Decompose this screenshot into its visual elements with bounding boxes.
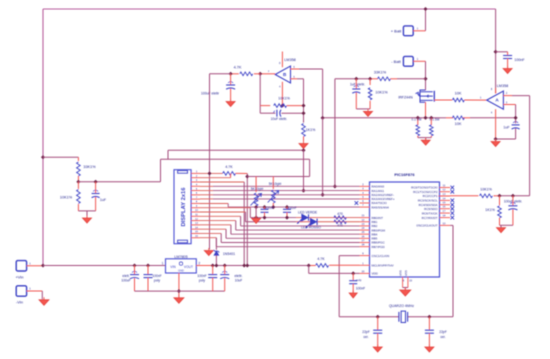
capacitor 1uF elettr (divider filter) <box>355 79 357 89</box>
junction - left divider node <box>76 180 80 184</box>
wire - divider filter bottom rail <box>356 108 370 110</box>
wire - display pin3 row to riser x244 <box>200 181 244 183</box>
wire - horizontal link row y159 <box>161 158 310 160</box>
svg-text:1: 1 <box>162 261 164 265</box>
junction - GND pin / cap bottom rail <box>177 289 181 293</box>
svg-text:1uF: 1uF <box>100 198 107 202</box>
ground - 100nF top right <box>507 66 509 69</box>
capacitor 100uF elettr (op-amp B output RC) <box>230 74 232 85</box>
svg-text:RC5/SDO: RC5/SDO <box>424 207 438 211</box>
junction - MCLR branch to VDD <box>307 263 311 267</box>
wire - display pin15 to PIC RB6 <box>200 232 221 234</box>
junction - cap branch <box>94 180 98 184</box>
resistor 10K (op-amp A + input) <box>452 116 464 120</box>
junction - column / RA0 row <box>333 184 337 188</box>
svg-text:1K1%: 1K1% <box>306 128 316 132</box>
wire - op-amp B output stub to 4.7K node <box>260 73 275 75</box>
capacitor 10uF elettr (op-amp B feedback) <box>260 112 275 114</box>
wire - 10K to op-amp A output <box>464 99 486 101</box>
wire - display pin5 row straight to PIC RA1 <box>200 190 213 192</box>
PIC left pin stubs and names <box>360 185 370 187</box>
wire - op-amp B V- stub down to feedback row <box>281 82 283 106</box>
junction - cap1 bottom / rail <box>262 216 266 220</box>
svg-text:10K: 10K <box>455 122 462 126</box>
wire - +5V down-over to VDD pin <box>308 266 310 274</box>
wire - divider node to RA tap and cap <box>78 181 160 183</box>
wire - output node down the feedback column <box>259 74 261 113</box>
wire - +Batt pin stub to top rail vertical <box>413 30 425 32</box>
wire - -Vin stub to ground <box>27 290 43 292</box>
wire - 1uF bottom to V- rail <box>496 138 516 140</box>
ground - PIC VSS <box>404 288 406 291</box>
svg-text:1N5401: 1N5401 <box>223 252 235 256</box>
svg-text:OSC2/CLKOUT: OSC2/CLKOUT <box>416 224 437 228</box>
wire - display pin8 row steps down to RA5 row <box>200 203 228 205</box>
svg-text:4.7K: 4.7K <box>317 257 325 261</box>
wire - op-amp B lower pin right then down feedback column <box>291 78 298 80</box>
svg-text:5K10giri: 5K10giri <box>269 182 282 186</box>
svg-text:-Vin: -Vin <box>16 300 23 305</box>
wire - display pin14 to PIC RB5 <box>200 228 226 230</box>
junction - diode / +5V rail <box>214 263 218 267</box>
ground - 22pF right <box>428 345 430 348</box>
wire - B input column continues down to RA2 row <box>322 118 324 195</box>
junction - +Vin node <box>41 263 45 267</box>
svg-text:RB7/PGD: RB7/PGD <box>372 245 386 249</box>
wire - op-amp A V- down to ground rail <box>495 109 497 141</box>
svg-text:10K1%: 10K1% <box>60 196 73 200</box>
wire - input rail to LM7805 VIN <box>43 265 166 267</box>
svg-text:10K1%: 10K1% <box>480 187 492 191</box>
ground - trimmer/cap rail <box>255 216 257 219</box>
junction - divider node to 1uF <box>354 77 358 81</box>
wire - -Batt pin stub then down to divider rail and MOSFET drain <box>413 60 425 62</box>
svg-text:470: 470 <box>337 224 343 228</box>
resistor 10K1% (op-amp B feedback) <box>260 105 270 107</box>
junction - pot2 / RA5 row <box>271 205 275 209</box>
resistor 10K1% (battery sense bottom) <box>369 79 371 85</box>
resistor 10K1% (left divider bottom) <box>77 182 79 189</box>
capacitor 100nF (RA5 filter 2) <box>285 205 289 209</box>
resistor 0.1 5W (shunt 1) <box>416 116 420 120</box>
capacitor 100uF elettr (PWM filter) <box>512 196 514 206</box>
junction - feedback cap right <box>301 111 305 115</box>
wire - display pin16 to PIC RB7 <box>200 237 216 239</box>
wire - RA5 row through trimmer taps <box>228 206 359 208</box>
junction - VDD decoupling branch <box>351 271 355 275</box>
svg-text:100uF: 100uF <box>121 278 130 282</box>
wire - op-amp A non-inverting input <box>503 104 515 106</box>
junction - PWM node / 100uF <box>511 194 515 198</box>
svg-text:470: 470 <box>337 212 343 216</box>
resistor 10K1% (PWM filter) <box>480 194 493 198</box>
PIC right pin stubs and names <box>440 187 451 189</box>
svg-text:VSS: VSS <box>404 270 408 276</box>
svg-text:10K1%: 10K1% <box>375 90 388 94</box>
op-amp U2:A LM358 (charge current regulator) <box>487 91 504 109</box>
wire - MOSFET gate to 10K <box>434 99 441 101</box>
wire - left signal column down to display pin1 row and ground <box>209 74 211 250</box>
junction - crystal rail right cap <box>427 315 431 319</box>
svg-text:QUARZO 4MHz: QUARZO 4MHz <box>389 304 414 308</box>
ground - battery divider <box>367 109 369 112</box>
svg-text:LM358: LM358 <box>284 58 296 62</box>
ground - shunt resistors <box>425 138 427 140</box>
wire - display pin9 to PIC RB0 <box>200 207 250 209</box>
capacitor elettr. 10uF (regulator output) <box>224 266 226 275</box>
wire - battery divider rail <box>335 78 371 80</box>
svg-text:100uF elettr: 100uF elettr <box>201 92 220 96</box>
svg-text:RC6/TX/CK: RC6/TX/CK <box>422 211 438 215</box>
wire - +Vin stub <box>27 265 43 267</box>
wire - cap bottom rail <box>135 290 225 292</box>
junction - RC node <box>229 72 233 76</box>
junction - pot1 / RA5 row <box>254 205 258 209</box>
ground - 22pF left <box>377 345 379 348</box>
wire - right vertical from top rail to op-amp A V+ <box>495 9 497 93</box>
capacitor 22pF cer (left) <box>377 317 379 330</box>
ground - VDD decoupling (arrow) <box>352 291 354 294</box>
svg-text:1uF: 1uF <box>503 126 510 130</box>
wire - main loop left vertical from top rail down to +Vin node <box>42 9 44 265</box>
display LCD DISPLAY 2x16 <box>174 170 191 244</box>
junction - feedback right column <box>301 104 305 108</box>
resistor 470 (LED rosso) <box>334 220 346 223</box>
junction - cap2 bottom / rail <box>285 216 289 220</box>
svg-text:LED VERDE: LED VERDE <box>298 211 318 215</box>
junction - output node <box>258 72 262 76</box>
wire - OSC1 run down to crystal rail <box>339 255 359 257</box>
resistor 33K1% (battery sense top) <box>378 77 391 81</box>
connector -Batt <box>403 56 413 66</box>
resistor 4.7K (display pin1 pull) <box>223 172 236 176</box>
capacitor 22pF cer (right) <box>428 317 430 330</box>
svg-text:+ Batt: + Batt <box>391 28 402 33</box>
ground - PWM filter <box>500 225 502 228</box>
junction - output cap 2 <box>223 263 227 267</box>
ground - output RC <box>230 99 232 102</box>
resistor 4.7K (op-amp B output RC) <box>254 73 260 75</box>
wire - display pin4 row straight to PIC RA0 <box>200 185 213 187</box>
wire - PWM RC filter row from PIC RC2/CCP1 <box>438 195 450 197</box>
junction - crystal rail left cap <box>376 315 380 319</box>
svg-text:1uF elettr.: 1uF elettr. <box>350 82 365 86</box>
ground - 1K1% arrow onto ground rail <box>303 141 305 144</box>
junction - output cap 1 <box>211 263 215 267</box>
PIC VSS ground pins <box>402 277 404 288</box>
svg-text:- Batt: - Batt <box>391 59 401 64</box>
resistor 1K1% (op-amp B gain) <box>302 124 306 137</box>
wire - left divider bottom rail <box>78 210 95 212</box>
wire - display pin7 row straight to PIC RA3 <box>200 198 213 200</box>
resistor 470 (LED verde) <box>334 216 346 219</box>
wire - display pin13 to PIC RB4 <box>200 224 231 226</box>
ground - left divider <box>86 211 88 218</box>
wire - MCLR row from +5V rail through 4.7K <box>329 264 359 266</box>
ground - LM7805 <box>178 295 180 298</box>
svg-text:LM358: LM358 <box>497 84 509 88</box>
junction - top rail / +Batt drop <box>423 7 427 11</box>
junction - riser / +5V rail <box>245 263 249 267</box>
wire - PWM filter bottom rail <box>500 224 513 226</box>
svg-text:poly: poly <box>154 278 160 282</box>
svg-text:RC7/RX/DT: RC7/RX/DT <box>422 216 438 220</box>
svg-text:10uF elettr.: 10uF elettr. <box>271 117 288 121</box>
svg-text:cer.: cer. <box>363 335 368 339</box>
wire - current shunt rail (op-amp B input sense line) <box>323 117 418 119</box>
junction - PWM node / 1K1% <box>497 194 501 198</box>
wire - +5V rail from LM7805 VOUT <box>196 265 212 267</box>
capacitor 1uF (left divider filter) <box>95 182 97 194</box>
resistor 1K1% (PWM filter) <box>499 196 501 205</box>
trimmer 5K10giri (contrast 2) <box>272 177 274 190</box>
capacitor 100nF (supply decoupling, top right) <box>496 51 508 53</box>
junction - input rail cap 1 <box>132 263 136 267</box>
svg-text:0.1 5W: 0.1 5W <box>429 118 439 122</box>
capacitor elett. 100uF (regulator input) <box>134 266 136 275</box>
svg-text:VDD: VDD <box>372 272 379 276</box>
diode D1 1N5401 (display line clamp) <box>215 238 217 250</box>
svg-text:GND: GND <box>178 269 184 273</box>
capacitor 100nF (VDD decoupling) <box>352 273 354 280</box>
svg-text:OSC1/CLKIN: OSC1/CLKIN <box>372 254 390 258</box>
wire - op-amp A V+ stub from top <box>495 91 497 93</box>
ground - -Vin <box>43 297 45 300</box>
connector +Vin <box>16 261 26 271</box>
svg-text:100uF elettr.: 100uF elettr. <box>504 199 522 203</box>
resistor 10K (gate) <box>452 98 464 102</box>
wire - op-amp B V+ stub <box>281 52 283 68</box>
wire - crystal rail <box>339 316 399 318</box>
ground - display pin1 column <box>208 248 210 251</box>
capacitor 100nF poly (regulator input) <box>147 266 149 275</box>
wire - trimmer top rail <box>247 176 309 178</box>
svg-text:VOUT: VOUT <box>184 265 193 269</box>
junction - V- / cap rail <box>494 137 498 141</box>
junction - pot1 stem / RB0 row <box>254 216 258 220</box>
svg-text:poly: poly <box>356 278 362 282</box>
junction - B column / RA2 row <box>321 193 325 197</box>
wire - MOSFET source to shunt rail <box>425 102 427 118</box>
svg-text:22pF: 22pF <box>362 330 370 334</box>
regulator U3 LM7805 <box>166 259 197 273</box>
junction - riser / trimmer rail <box>245 174 249 178</box>
wire - op-amp A inverting input to PWM filter column <box>503 95 512 97</box>
wire - op-amp B inverting input right then down to shunt rail <box>291 68 300 70</box>
junction - riser244 / +5V rail <box>242 263 246 267</box>
wire - 1K column continues down to RA1 row <box>303 150 305 190</box>
wire - display pin10 to PIC RB1 <box>200 211 245 213</box>
microcontroller U1 PIC16F876 <box>370 182 440 277</box>
svg-text:100nF: 100nF <box>356 287 365 291</box>
svg-text:VIN: VIN <box>170 265 176 269</box>
junction - -Batt column / divider rail <box>423 77 427 81</box>
svg-text:LM7805: LM7805 <box>174 255 187 259</box>
capacitor 100nF (RA5 filter 1) <box>262 205 266 209</box>
op-amp U2:B LM358 (current sense amp) <box>275 66 290 83</box>
junction - column / RA1 row <box>301 189 305 193</box>
wire - display pin12 to PIC RB3 <box>200 220 236 222</box>
svg-text:RA5/SS/AN4: RA5/SS/AN4 <box>372 205 390 209</box>
wire - main loop top rail (+Vin/+Batt bus) <box>43 8 496 10</box>
junction - +input column / shunt rail <box>514 116 518 120</box>
svg-text:4.7K: 4.7K <box>234 65 242 69</box>
resistor 4.7K (MCLR pull-up) <box>316 264 329 268</box>
resistor 33K1% (left divider top) <box>77 157 79 161</box>
wire - display pin2 jog to 4.7K right node <box>200 177 231 179</box>
junction - left rail branch <box>41 155 45 159</box>
svg-text:100nF: 100nF <box>287 206 296 210</box>
connector +Batt <box>403 26 413 36</box>
svg-text:100nF: 100nF <box>514 58 525 62</box>
junction - divider node to 10K1% <box>368 77 372 81</box>
junction - B input column tee on shunt rail <box>321 116 325 120</box>
wire - riser x244 down to +5V rail <box>243 182 245 266</box>
svg-text:cer.: cer. <box>440 335 445 339</box>
capacitor 1uF (op-amp A input filter) <box>512 124 520 126</box>
wire - ground rail under op-amp B network <box>168 149 304 151</box>
display pin stubs 1-16 <box>191 172 200 174</box>
wire - shunt bottom rail <box>418 137 432 139</box>
svg-text:10K1%: 10K1% <box>278 97 290 101</box>
svg-text:IRFZ44N: IRFZ44N <box>398 96 413 100</box>
svg-text:+Vin: +Vin <box>15 274 23 279</box>
svg-text:RC2/CCP1: RC2/CCP1 <box>423 194 438 198</box>
svg-text:poly: poly <box>199 278 205 282</box>
wire - left divider tap rises to link row <box>160 159 162 182</box>
svg-text:5K10giri: 5K10giri <box>251 187 264 191</box>
trimmer 5K10giri (contrast 1) <box>255 177 257 193</box>
wire - pot1 stem to LED rail <box>255 207 257 218</box>
wire - divider rail column down to RA0 row <box>334 79 336 187</box>
svg-text:100nF: 100nF <box>265 206 274 210</box>
junction - pin1 row / ground column <box>207 171 211 175</box>
junction - ground rail / 1K column <box>301 148 305 152</box>
svg-text:10K: 10K <box>455 91 462 95</box>
no-connect X on RA4 <box>355 201 359 205</box>
svg-text:33K1%: 33K1% <box>374 70 387 74</box>
wire - display pin11 to PIC RB2 <box>200 215 241 217</box>
junction - shunt rail / MOSFET source <box>423 116 427 120</box>
junction - top rail branch to 100nF <box>494 50 498 54</box>
LED rosso (on RB1 row) <box>310 219 316 226</box>
resistor 0.1 5W (shunt 2) <box>429 116 433 120</box>
svg-text:4.7K: 4.7K <box>225 165 233 169</box>
wire - ground rail left link down <box>167 150 169 159</box>
svg-text:DISPLAY 2x16: DISPLAY 2x16 <box>181 187 187 227</box>
wire - +5V riser at x247 from 4.7K node to +5V rail <box>246 174 248 266</box>
svg-text:VSS: VSS <box>399 270 403 276</box>
junction - input rail cap 2 <box>146 263 150 267</box>
wire - display pin1 row to 4.7K <box>200 172 223 174</box>
svg-text:2: 2 <box>198 261 200 265</box>
svg-text:LED ROSSO: LED ROSSO <box>301 226 321 230</box>
svg-text:MCLR/VPP/THV: MCLR/VPP/THV <box>372 264 394 268</box>
wire - RC row to left corner column <box>210 73 231 75</box>
junction - V- on feedback row <box>280 104 284 108</box>
svg-text:0.1 5W: 0.1 5W <box>411 118 421 122</box>
wire - LM7805 GND pin to ground <box>178 273 180 297</box>
connector -Vin <box>16 286 26 296</box>
svg-text:PIC16F876: PIC16F876 <box>394 172 415 177</box>
wire - OSC2 run down to crystal rail <box>450 224 453 226</box>
wire - display pin6 row straight to PIC RA2 <box>200 194 213 196</box>
svg-text:1K1%: 1K1% <box>485 208 495 212</box>
wire - branch to left divider <box>43 156 78 158</box>
svg-text:22pF: 22pF <box>439 330 447 334</box>
svg-text:33K1%: 33K1% <box>83 165 96 169</box>
wire - link row right drop to trimmer rail <box>309 159 311 176</box>
svg-text:10uF: 10uF <box>235 278 243 282</box>
capacitor 100nF poly (regulator output) <box>212 266 214 275</box>
ground - op-amp A <box>495 139 497 142</box>
